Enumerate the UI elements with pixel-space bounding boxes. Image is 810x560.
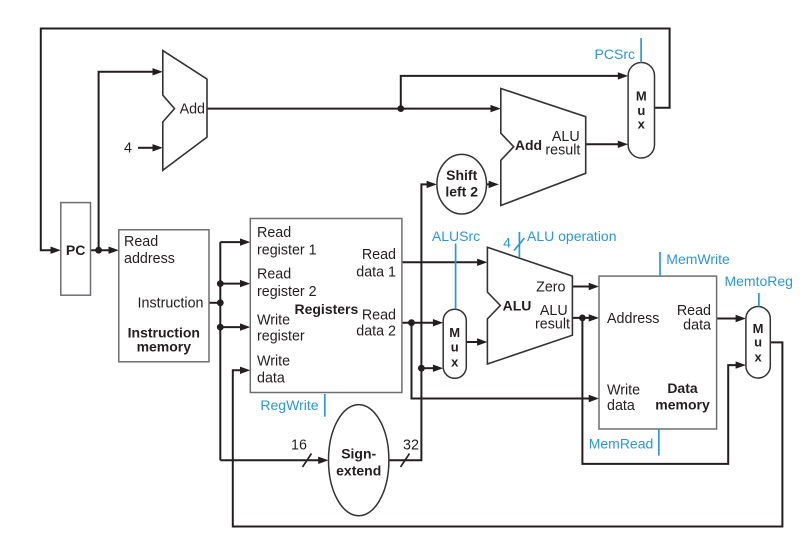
svg-text:Data: Data xyxy=(667,380,698,396)
svg-text:4: 4 xyxy=(124,141,132,157)
control signal MemRead xyxy=(589,429,659,455)
ALU U3 (main ALU) xyxy=(487,247,572,364)
wire: constant 4 into Add input xyxy=(138,144,163,151)
node: instruction junction main xyxy=(217,299,224,306)
node: sign-extend output junction xyxy=(418,365,425,372)
registers box xyxy=(250,219,402,393)
svg-text:Address: Address xyxy=(607,311,659,327)
svg-text:extend: extend xyxy=(336,463,381,479)
wire: Add (PC+4) output to branch Add input xyxy=(207,105,501,112)
wire: PC+4 up-branch to PCSrc mux input 0 xyxy=(401,72,628,108)
wire: PCSrc mux output loop back to PC input xyxy=(41,29,670,254)
svg-text:MemRead: MemRead xyxy=(589,435,654,451)
svg-text:register: register xyxy=(257,329,305,345)
svg-text:address: address xyxy=(124,251,175,267)
wire: sign-extend output up to shift-left-2 and ALUSrc mux input 1 xyxy=(389,181,443,461)
wire: instruction bus from instruction memory with branches xyxy=(209,238,329,464)
data memory box xyxy=(599,276,717,429)
node: PC+4 junction xyxy=(397,105,404,112)
svg-text:Shift: Shift xyxy=(446,167,477,183)
svg-text:M: M xyxy=(449,325,460,340)
svg-text:data 2: data 2 xyxy=(356,324,396,340)
svg-text:Read: Read xyxy=(362,247,396,263)
svg-text:ALU: ALU xyxy=(503,298,532,314)
node: instruction junction write register xyxy=(217,324,224,331)
svg-text:u: u xyxy=(754,335,762,350)
wire: ALU result to data memory address and MemtoReg mux input 1 xyxy=(572,314,746,464)
sign-extend unit xyxy=(329,405,389,516)
instruction memory box xyxy=(119,230,209,362)
svg-text:32: 32 xyxy=(403,438,419,454)
svg-text:x: x xyxy=(638,117,646,132)
svg-text:register 1: register 1 xyxy=(257,242,317,258)
svg-text:16: 16 xyxy=(291,438,307,454)
adder U2 (branch target Add) xyxy=(501,89,586,206)
node: read data 2 junction xyxy=(408,319,415,326)
wire: MemtoReg mux output back to registers write data xyxy=(233,342,783,526)
svg-text:Write: Write xyxy=(257,313,290,329)
wire: ALUSrc mux output to ALU input xyxy=(466,338,487,345)
mux M3 (MemtoReg) xyxy=(746,307,770,379)
bus width slash 16 xyxy=(303,454,312,468)
svg-text:Read: Read xyxy=(257,266,291,282)
svg-text:result: result xyxy=(535,316,570,332)
shift left 2 unit xyxy=(437,154,487,214)
svg-text:Registers: Registers xyxy=(294,301,358,317)
svg-text:register 2: register 2 xyxy=(257,284,317,300)
svg-text:Zero: Zero xyxy=(536,279,565,295)
svg-text:data: data xyxy=(607,398,635,414)
control signal MemWrite xyxy=(660,251,730,276)
svg-text:MemWrite: MemWrite xyxy=(666,251,730,267)
wire: registers read data 2 to ALUSrc mux input 0 and data memory write data xyxy=(402,319,599,402)
register PC xyxy=(61,203,91,296)
svg-text:ALU operation: ALU operation xyxy=(527,228,617,244)
svg-text:Add: Add xyxy=(180,102,205,118)
svg-text:data: data xyxy=(683,317,711,333)
svg-text:data: data xyxy=(257,371,285,387)
svg-text:PC: PC xyxy=(66,242,85,258)
svg-text:ALUSrc: ALUSrc xyxy=(432,228,480,244)
control signal ALUSrc xyxy=(432,228,480,309)
svg-text:M: M xyxy=(636,88,647,103)
svg-text:RegWrite: RegWrite xyxy=(260,397,318,413)
wire: shift-left-2 output to branch Add input xyxy=(487,181,499,188)
wire: registers read data 1 to ALU input xyxy=(402,259,488,266)
node: instruction junction read register 2 xyxy=(217,280,224,287)
svg-text:MemtoReg: MemtoReg xyxy=(724,273,792,289)
svg-text:data 1: data 1 xyxy=(356,265,396,281)
wire: branch Add ALU result to PCSrc mux input 1 xyxy=(586,141,628,148)
wire: ALU zero output xyxy=(572,283,599,290)
wire: PC output to instruction memory read address xyxy=(91,247,119,254)
svg-text:PCSrc: PCSrc xyxy=(595,46,635,62)
svg-text:memory: memory xyxy=(655,396,710,412)
svg-text:x: x xyxy=(451,355,459,370)
node: ALU result junction xyxy=(579,315,586,322)
svg-text:4: 4 xyxy=(503,235,511,251)
svg-text:x: x xyxy=(754,350,762,365)
svg-text:u: u xyxy=(451,340,459,355)
svg-text:memory: memory xyxy=(137,339,192,355)
control signal RegWrite xyxy=(260,394,324,417)
mux M1 (PCSrc) xyxy=(628,63,654,159)
svg-text:left 2: left 2 xyxy=(445,184,478,200)
bus width slash 32 xyxy=(401,454,410,468)
node: PC output junction xyxy=(95,247,102,254)
svg-text:Instruction: Instruction xyxy=(138,296,204,312)
svg-text:Read: Read xyxy=(124,234,158,250)
wire: data memory read data to MemtoReg mux input 0 xyxy=(717,315,746,322)
svg-text:Read: Read xyxy=(362,307,396,323)
svg-text:Add: Add xyxy=(515,137,542,153)
svg-text:Sign-: Sign- xyxy=(341,446,376,462)
control signal ALU operation (4-bit) xyxy=(503,228,616,257)
svg-text:Write: Write xyxy=(257,354,290,370)
control signal MemtoReg xyxy=(724,273,792,307)
adder U1 (PC+4 Add) xyxy=(163,51,207,171)
mux M2 (ALUSrc) xyxy=(443,309,466,378)
control signal PCSrc xyxy=(595,38,642,62)
svg-text:Write: Write xyxy=(607,382,640,398)
wire: PC value up to Add (PC+4) input xyxy=(99,68,163,250)
svg-text:result: result xyxy=(545,143,580,159)
svg-text:Read: Read xyxy=(257,225,291,241)
